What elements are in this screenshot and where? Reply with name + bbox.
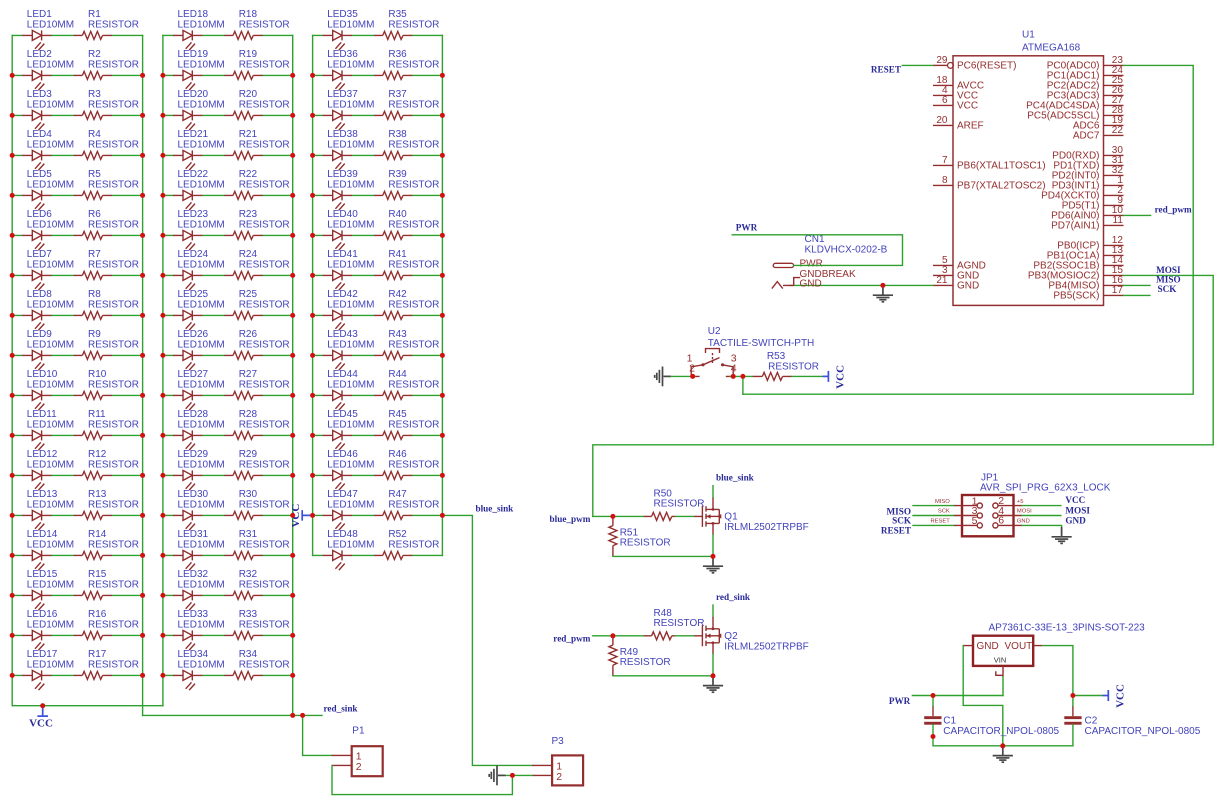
svg-text:LED10MM: LED10MM (178, 419, 225, 430)
svg-text:RESISTOR: RESISTOR (239, 179, 290, 190)
resistor R25 (225, 289, 290, 319)
svg-text:blue_sink: blue_sink (716, 473, 755, 483)
svg-text:LED10MM: LED10MM (327, 219, 374, 230)
wire R49 to Q2 source (613, 675, 713, 677)
wire row LED13 (12, 514, 142, 516)
resistor R8 (74, 289, 139, 319)
LED2 LED10MM (22, 49, 74, 90)
svg-text:R47: R47 (388, 489, 407, 500)
svg-text:R37: R37 (388, 89, 407, 100)
wire row LED40 (313, 234, 443, 236)
junction col2 right row7 (290, 273, 295, 278)
junction col3 right row3 (440, 113, 445, 118)
resistor R9 (74, 329, 139, 359)
junction col3 left row4 (310, 153, 315, 158)
resistor R5 (74, 169, 139, 199)
wire row LED47 (313, 514, 443, 516)
svg-text:RESISTOR: RESISTOR (654, 618, 705, 629)
svg-text:LED10MM: LED10MM (27, 259, 74, 270)
wire C1 to ground rail (933, 725, 1073, 746)
IC U1 ATMEGA168 (953, 30, 1104, 306)
wire row LED27 (163, 394, 293, 396)
svg-text:LED39: LED39 (327, 169, 358, 180)
wire U2 to R53 (730, 375, 753, 377)
junction col1 right row8 (140, 313, 145, 318)
svg-text:RESISTOR: RESISTOR (88, 179, 139, 190)
junction col1 right row4 (140, 153, 145, 158)
svg-text:LED10MM: LED10MM (27, 659, 74, 670)
junction col1 right row5 (140, 193, 145, 198)
junction col3 right row6 (440, 233, 445, 238)
svg-text:IRLML2502TRPBF: IRLML2502TRPBF (724, 522, 808, 533)
junction col2 right row3 (290, 113, 295, 118)
junction col2 right row10 (290, 393, 295, 398)
junction col3 left row13 (310, 513, 315, 518)
LED4 LED10MM (22, 129, 74, 170)
svg-text:LED10MM: LED10MM (327, 19, 374, 30)
svg-text:LED10MM: LED10MM (178, 299, 225, 310)
resistor R12 (74, 449, 139, 479)
wire PC0 to switch (743, 65, 1193, 394)
wire row LED15 (12, 594, 142, 596)
svg-text:R16: R16 (88, 609, 107, 620)
svg-text:R42: R42 (388, 289, 407, 300)
pin 6 VCC (933, 95, 978, 112)
svg-text:RESISTOR: RESISTOR (88, 219, 139, 230)
svg-text:U2: U2 (708, 326, 721, 337)
junction col2 left row7 (160, 273, 165, 278)
svg-text:RESISTOR: RESISTOR (239, 219, 290, 230)
svg-text:R34: R34 (239, 649, 258, 660)
pin 14 PB2(SSOC1B) (1033, 255, 1123, 272)
svg-text:R22: R22 (239, 169, 258, 180)
regulator U3 AP7361C-33E-13_3PINS-SOT-223 (963, 622, 1145, 677)
svg-text:LED10MM: LED10MM (27, 219, 74, 230)
wire MOSI / blue_pwm (593, 275, 1213, 516)
junction col3 left row10 (310, 393, 315, 398)
junction col3 right row13 (440, 513, 445, 518)
LED21 LED10MM (173, 129, 225, 170)
junction Q1 source / ground (711, 554, 716, 559)
svg-text:R46: R46 (388, 449, 407, 460)
svg-text:PWR: PWR (889, 696, 911, 706)
svg-text:LED10MM: LED10MM (178, 379, 225, 390)
wire ground to P3 pin2 (506, 774, 533, 776)
LED14 LED10MM (22, 529, 74, 570)
resistor R6 (74, 209, 139, 239)
svg-text:LED18: LED18 (178, 9, 209, 20)
pin 23 PC0(ADC0) (1047, 55, 1124, 72)
svg-text:LED16: LED16 (27, 609, 58, 620)
junction col1 left row10 (10, 393, 15, 398)
ground (Q1) (703, 556, 723, 572)
resistor R10 (74, 369, 139, 399)
pin 12 PB0(ICP) (1057, 235, 1123, 252)
LED19 LED10MM (173, 49, 225, 90)
svg-text:LED26: LED26 (178, 329, 209, 340)
resistor R47 (374, 489, 439, 519)
svg-text:R13: R13 (88, 489, 107, 500)
LED47 LED10MM (323, 489, 375, 530)
junction col1 left row7 (10, 273, 15, 278)
pin 13 PB1(OC1A) (1047, 245, 1124, 262)
junction col1 right row9 (140, 353, 145, 358)
svg-text:LED10MM: LED10MM (178, 59, 225, 70)
wire VOUT to VCC (1073, 695, 1103, 697)
svg-text:RESISTOR: RESISTOR (388, 379, 439, 390)
svg-text:LED14: LED14 (27, 529, 58, 540)
junction col3 right row9 (440, 353, 445, 358)
svg-text:blue_sink: blue_sink (476, 504, 515, 514)
svg-text:LED7: LED7 (27, 249, 52, 260)
junction ground rail (1000, 743, 1005, 748)
svg-text:R45: R45 (388, 409, 407, 420)
resistor R18 (225, 9, 290, 39)
svg-text:RESISTOR: RESISTOR (239, 539, 290, 550)
resistor R7 (74, 249, 139, 279)
svg-text:LED19: LED19 (178, 49, 209, 60)
resistor R2 (74, 49, 139, 79)
svg-text:2: 2 (689, 363, 695, 375)
svg-text:VIN: VIN (994, 656, 1007, 665)
junction col1 left row11 (10, 433, 15, 438)
resistor R50 (644, 489, 705, 521)
svg-text:LED1: LED1 (27, 9, 52, 20)
svg-text:AVR_SPI_PRG_62X3_LOCK: AVR_SPI_PRG_62X3_LOCK (980, 483, 1111, 494)
svg-text:RESISTOR: RESISTOR (88, 19, 139, 30)
wire row LED35 (313, 34, 443, 36)
pin 24 PC1(ADC1) (1047, 65, 1124, 82)
connector P3 (532, 736, 583, 785)
svg-text:RESISTOR: RESISTOR (88, 139, 139, 150)
junction col1 right row2 (140, 73, 145, 78)
wire row LED20 (163, 114, 293, 116)
connector P1 (332, 726, 383, 777)
svg-text:17: 17 (1112, 285, 1124, 296)
svg-text:R53: R53 (767, 351, 786, 362)
LED12 LED10MM (22, 449, 74, 490)
svg-text:R7: R7 (88, 249, 101, 260)
svg-text:LED10MM: LED10MM (327, 339, 374, 350)
svg-text:LED10MM: LED10MM (178, 139, 225, 150)
junction col2 left row8 (160, 313, 165, 318)
LED36 LED10MM (323, 49, 375, 90)
wire row LED5 (12, 194, 142, 196)
svg-text:LED10MM: LED10MM (27, 619, 74, 630)
svg-text:SCK: SCK (1158, 284, 1178, 294)
svg-text:LED10MM: LED10MM (178, 259, 225, 270)
resistor R29 (225, 449, 290, 479)
junction col1 left row12 (10, 473, 15, 478)
svg-text:RESISTOR: RESISTOR (239, 459, 290, 470)
LED26 LED10MM (173, 329, 225, 370)
junction Q2 source / ground (711, 673, 716, 678)
wire Q2 source (712, 654, 714, 676)
wire regulator GND to rail (963, 646, 1003, 746)
svg-text:R17: R17 (88, 649, 107, 660)
LED27 LED10MM (173, 369, 225, 410)
LED40 LED10MM (323, 209, 375, 250)
junction col3 left row3 (310, 113, 315, 118)
junction col2 left row15 (160, 593, 165, 598)
svg-text:RESISTOR: RESISTOR (388, 499, 439, 510)
wire row LED2 (12, 74, 142, 76)
svg-text:LED10MM: LED10MM (327, 59, 374, 70)
ground (regulator) (993, 746, 1013, 762)
resistor R26 (225, 329, 290, 359)
junction col1 right row17 (140, 673, 145, 678)
pin 25 PC2(ADC2) (1047, 75, 1124, 92)
pin 31 PD1(TXD) (1053, 155, 1123, 172)
svg-text:R14: R14 (88, 529, 107, 540)
resistor R21 (225, 129, 290, 159)
supply VCC (R53) (828, 365, 846, 389)
svg-text:LED34: LED34 (178, 649, 209, 660)
svg-text:LED10MM: LED10MM (178, 579, 225, 590)
wire MISO to JP1 (913, 505, 954, 507)
svg-text:LED10MM: LED10MM (327, 259, 374, 270)
junction col1 left row5 (10, 193, 15, 198)
svg-text:LED17: LED17 (27, 649, 58, 660)
svg-text:RESISTOR: RESISTOR (388, 99, 439, 110)
LED28 LED10MM (173, 409, 225, 450)
wire row LED32 (163, 594, 293, 596)
svg-text:U1: U1 (1022, 30, 1035, 41)
svg-text:RESISTOR: RESISTOR (239, 419, 290, 430)
junction red_pwm (610, 633, 615, 638)
wire row LED21 (163, 154, 293, 156)
svg-text:LED10MM: LED10MM (27, 539, 74, 550)
junction VCC (40, 703, 45, 708)
svg-text:MISO: MISO (935, 499, 950, 505)
resistor R30 (225, 489, 290, 519)
junction col1 right row16 (140, 633, 145, 638)
junction col2 left row3 (160, 113, 165, 118)
svg-text:PB6(XTAL1TOSC1): PB6(XTAL1TOSC1) (957, 161, 1046, 172)
junction col2 right row4 (290, 153, 295, 158)
svg-text:R26: R26 (239, 329, 258, 340)
wire row LED44 (313, 394, 443, 396)
svg-text:LED45: LED45 (327, 409, 358, 420)
svg-text:LED10MM: LED10MM (27, 19, 74, 30)
svg-text:RESISTOR: RESISTOR (388, 419, 439, 430)
wire row LED37 (313, 114, 443, 116)
junction col2 right row12 (290, 473, 295, 478)
pin 32 PD2(INT0) (1052, 165, 1124, 182)
wire ground to U2 (671, 375, 695, 377)
svg-text:RESISTOR: RESISTOR (239, 19, 290, 30)
svg-text:LED10MM: LED10MM (327, 99, 374, 110)
junction red_sink / P1 drop (300, 713, 305, 718)
wire col2 left rail (162, 35, 164, 705)
wire row LED33 (163, 634, 293, 636)
wire col3 right rail (441, 35, 443, 555)
wire blue_sink to P3 pin1 (442, 515, 532, 765)
svg-text:R31: R31 (239, 529, 258, 540)
svg-text:RESISTOR: RESISTOR (88, 259, 139, 270)
svg-text:LED10MM: LED10MM (178, 339, 225, 350)
junction col3 right row10 (440, 393, 445, 398)
pin 19 ADC6 (1073, 115, 1124, 132)
svg-text:VCC: VCC (1065, 495, 1085, 505)
svg-text:LED10MM: LED10MM (327, 139, 374, 150)
junction col2 right row2 (290, 73, 295, 78)
resistor R37 (374, 89, 439, 119)
pin 26 PC3(ADC3) (1047, 85, 1124, 102)
wire row LED19 (163, 74, 293, 76)
svg-text:R6: R6 (88, 209, 101, 220)
svg-text:R4: R4 (88, 129, 101, 140)
resistor R15 (74, 569, 139, 599)
LED39 LED10MM (323, 169, 375, 210)
wire VIN drop (1002, 677, 1004, 696)
svg-text:R21: R21 (239, 129, 258, 140)
svg-text:LED10MM: LED10MM (327, 299, 374, 310)
junction U2 pins 1-2 (690, 374, 695, 379)
junction P3 pin2 (510, 773, 515, 778)
wire row LED8 (12, 314, 142, 316)
svg-text:LED28: LED28 (178, 409, 209, 420)
svg-text:RESISTOR: RESISTOR (768, 361, 819, 372)
resistor R24 (225, 249, 290, 279)
svg-text:RESET: RESET (930, 519, 950, 525)
junction col3 left row7 (310, 273, 315, 278)
svg-text:LED46: LED46 (327, 449, 358, 460)
svg-text:LED15: LED15 (27, 569, 58, 580)
ground (U1 pin21) (873, 285, 893, 301)
LED15 LED10MM (22, 569, 74, 610)
junction col3 right row12 (440, 473, 445, 478)
wire JP1 pin6 to ground (1022, 525, 1062, 533)
svg-text:RESISTOR: RESISTOR (388, 339, 439, 350)
svg-text:RESISTOR: RESISTOR (88, 539, 139, 550)
svg-text:VCC: VCC (957, 101, 978, 112)
wire row LED6 (12, 234, 142, 236)
svg-text:RESISTOR: RESISTOR (239, 259, 290, 270)
wire Q1 source (712, 535, 714, 557)
junction col2 left row9 (160, 353, 165, 358)
svg-text:CAPACITOR_NPOL-0805: CAPACITOR_NPOL-0805 (1085, 726, 1201, 737)
resistor R49 (609, 636, 671, 676)
resistor R22 (225, 169, 290, 199)
resistor R31 (225, 529, 290, 559)
svg-text:RESISTOR: RESISTOR (239, 379, 290, 390)
svg-text:R41: R41 (388, 249, 407, 260)
junction col3 right row8 (440, 313, 445, 318)
svg-text:LED35: LED35 (327, 9, 358, 20)
svg-text:LED36: LED36 (327, 49, 358, 60)
resistor R11 (74, 409, 139, 439)
svg-text:LED10MM: LED10MM (178, 539, 225, 550)
svg-text:LED10MM: LED10MM (327, 539, 374, 550)
LED10 LED10MM (22, 369, 74, 410)
ground (P3) (489, 766, 505, 786)
svg-text:LED10MM: LED10MM (27, 139, 74, 150)
LED8 LED10MM (22, 289, 74, 330)
svg-text:TACTILE-SWITCH-PTH: TACTILE-SWITCH-PTH (708, 338, 814, 349)
svg-text:PWR: PWR (736, 223, 758, 233)
svg-text:RESISTOR: RESISTOR (88, 579, 139, 590)
wire row LED18 (163, 34, 293, 36)
junction col2 right row8 (290, 313, 295, 318)
junction col2 right row5 (290, 193, 295, 198)
LED17 LED10MM (22, 649, 74, 690)
junction col1 left row6 (10, 233, 15, 238)
wire blue_pwm (593, 515, 644, 517)
junction VOUT / C2 (1070, 693, 1075, 698)
svg-text:LED21: LED21 (178, 129, 209, 140)
svg-text:R28: R28 (239, 409, 258, 420)
LED33 LED10MM (173, 609, 225, 650)
LED31 LED10MM (173, 529, 225, 570)
wire PWR to VIN (912, 695, 1003, 697)
wire col3 left rail (312, 35, 314, 555)
junction C1 bottom (931, 734, 936, 739)
svg-text:RESISTOR: RESISTOR (239, 299, 290, 310)
wire row LED10 (12, 394, 142, 396)
svg-text:GND: GND (957, 281, 979, 292)
LED30 LED10MM (173, 489, 225, 530)
svg-text:LED10MM: LED10MM (327, 499, 374, 510)
wire row LED14 (12, 554, 142, 556)
wire row LED39 (313, 194, 443, 196)
svg-text:R12: R12 (88, 449, 107, 460)
junction U2 pins 3-4 (731, 374, 736, 379)
junction blue_pwm (610, 514, 615, 519)
svg-text:RESISTOR: RESISTOR (88, 659, 139, 670)
resistor R13 (74, 489, 139, 519)
svg-text:RESISTOR: RESISTOR (388, 299, 439, 310)
svg-text:R30: R30 (239, 489, 258, 500)
svg-text:RESISTOR: RESISTOR (620, 657, 671, 668)
resistor R20 (225, 89, 290, 119)
svg-text:PB7(XTAL2TOSC2): PB7(XTAL2TOSC2) (957, 181, 1046, 192)
svg-text:R32: R32 (239, 569, 258, 580)
svg-text:LED41: LED41 (327, 249, 358, 260)
svg-text:AREF: AREF (957, 121, 984, 132)
svg-text:LED47: LED47 (327, 489, 358, 500)
svg-text:LED10MM: LED10MM (27, 379, 74, 390)
LED1 LED10MM (22, 9, 74, 50)
svg-text:RESISTOR: RESISTOR (88, 299, 139, 310)
resistor R14 (74, 529, 139, 559)
svg-text:GND: GND (1065, 516, 1086, 526)
svg-text:LED3: LED3 (27, 89, 52, 100)
svg-text:MOSI: MOSI (1065, 505, 1090, 515)
junction col1 left row3 (10, 113, 15, 118)
resistor R33 (225, 609, 290, 639)
wire col1 right rail (142, 35, 144, 715)
LED3 LED10MM (22, 89, 74, 130)
connector CN1 KLDVHCX-0202-B (772, 234, 888, 289)
svg-text:LED10MM: LED10MM (27, 299, 74, 310)
svg-text:7: 7 (942, 155, 948, 166)
svg-text:LED10MM: LED10MM (27, 459, 74, 470)
junction col1 left row13 (10, 513, 15, 518)
resistor R28 (225, 409, 290, 439)
svg-text:R2: R2 (88, 49, 101, 60)
resistor R1 (74, 9, 139, 39)
svg-text:LED10MM: LED10MM (27, 99, 74, 110)
resistor R41 (374, 249, 439, 279)
pin 29 PC6(RESET) (933, 55, 1016, 72)
resistor R16 (74, 609, 139, 639)
svg-text:LED10MM: LED10MM (27, 339, 74, 350)
junction PWR / C1 (931, 693, 936, 698)
svg-text:RESISTOR: RESISTOR (388, 259, 439, 270)
wire JP1 pin4 MOSI (1022, 515, 1061, 517)
junction col1 right row12 (140, 473, 145, 478)
